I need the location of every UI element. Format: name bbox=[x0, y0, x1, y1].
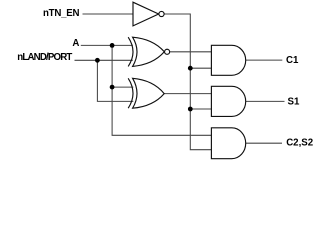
wire node A branch (down, tee to XOR top input, down again to C2,S2 top input) bbox=[112, 45, 212, 135]
node junction on A wire bbox=[110, 43, 115, 48]
svg-text:nLAND/PORT: nLAND/PORT bbox=[17, 52, 72, 63]
wire nTN_EN to inverter input bbox=[83, 13, 134, 15]
wire branch to C1 bottom input bbox=[190, 67, 212, 69]
wire branch to S1 bottom input bbox=[190, 108, 212, 110]
node junction at XOR top input bbox=[110, 85, 115, 90]
node junction at C1 bottom input bbox=[188, 66, 193, 71]
AND gate U6 (C2,S2) bbox=[211, 128, 245, 159]
svg-text:A: A bbox=[72, 38, 79, 49]
wire tee to XOR top input bbox=[112, 86, 133, 88]
svg-text:C2,S2: C2,S2 bbox=[286, 137, 313, 148]
wire C1 output bbox=[246, 59, 283, 61]
node junction on nLAND/PORT wire bbox=[95, 58, 100, 63]
svg-text:nTN_EN: nTN_EN bbox=[43, 8, 80, 19]
AND gate U5 (S1) bbox=[211, 86, 245, 116]
wire A to XNOR top input bbox=[81, 44, 133, 46]
wire C2,S2 output bbox=[246, 142, 282, 144]
wire nLAND/PORT branch down to XOR bottom input bbox=[97, 60, 133, 101]
svg-text:C1: C1 bbox=[286, 55, 299, 66]
svg-text:S1: S1 bbox=[288, 97, 300, 108]
wire inverter output net (right then down to C2,S2 bottom input) bbox=[164, 14, 212, 150]
node junction at S1 bottom input bbox=[188, 107, 193, 112]
wire nLAND/PORT to XNOR bottom input bbox=[75, 59, 133, 61]
XNOR gate U2 output bubble bbox=[165, 49, 170, 54]
XNOR gate U2 input leading curve bbox=[128, 37, 133, 66]
XOR gate U3 body bbox=[133, 78, 165, 108]
XNOR gate U2 body bbox=[133, 37, 165, 66]
wire XOR output to S1 top input bbox=[164, 93, 212, 95]
wire S1 output bbox=[246, 100, 285, 102]
inverter U1 triangle bbox=[133, 2, 159, 26]
AND gate U4 (C1) bbox=[211, 45, 245, 75]
inverter U1 output bubble bbox=[159, 11, 164, 16]
wire XNOR output to C1 top input bbox=[170, 51, 212, 53]
XOR gate U3 input leading curve bbox=[128, 78, 133, 108]
